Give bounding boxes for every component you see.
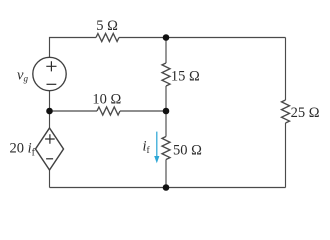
wire voltage source bottom to mid node bbox=[49, 91, 51, 112]
svg-text:5 Ω: 5 Ω bbox=[96, 18, 118, 34]
resistor R 5ohm zigzag bbox=[96, 34, 119, 42]
voltage source minus sign bbox=[47, 83, 57, 85]
svg-text:10 Ω: 10 Ω bbox=[92, 92, 121, 108]
svg-text:if: if bbox=[143, 139, 151, 157]
current arrow if (cyan) bbox=[154, 132, 159, 164]
node dot bottom junction bbox=[163, 184, 170, 191]
svg-text:50 Ω: 50 Ω bbox=[173, 142, 202, 158]
resistor R 15ohm zigzag bbox=[162, 63, 170, 86]
wire left bottom segment bbox=[49, 170, 51, 188]
wire 50ohm branch upper lead bbox=[165, 111, 167, 137]
svg-text:vg: vg bbox=[17, 68, 28, 84]
resistor R 10ohm zigzag bbox=[97, 107, 120, 115]
wire 50ohm branch lower lead bbox=[165, 160, 167, 188]
wire mid rail right bbox=[120, 110, 166, 112]
node dot mid-left junction bbox=[46, 108, 53, 115]
wire 15ohm branch upper lead bbox=[165, 38, 167, 64]
voltage source plus sign bbox=[46, 61, 56, 71]
wire mid rail left bbox=[50, 110, 98, 112]
wire right rail lower bbox=[285, 123, 287, 188]
wire top rail right bbox=[119, 37, 286, 39]
wire diamond top to mid node bbox=[49, 111, 51, 128]
svg-text:20 if: 20 if bbox=[10, 141, 36, 159]
wire bottom rail bbox=[50, 187, 286, 189]
dependent source minus sign bbox=[46, 158, 53, 160]
dependent source diamond 20if bbox=[36, 128, 64, 170]
voltage source vg circle bbox=[33, 57, 66, 90]
wire right rail upper bbox=[285, 38, 287, 101]
node dot mid junction bbox=[163, 108, 170, 115]
dependent source plus sign bbox=[45, 134, 55, 144]
svg-text:15 Ω: 15 Ω bbox=[171, 68, 200, 84]
resistor R 50ohm zigzag bbox=[162, 137, 170, 160]
svg-text:25 Ω: 25 Ω bbox=[291, 105, 320, 121]
wire 15ohm branch lower lead bbox=[165, 86, 167, 111]
node dot top junction bbox=[163, 34, 170, 41]
wire top-left corner bbox=[50, 38, 97, 58]
resistor R 25ohm zigzag bbox=[282, 100, 290, 123]
